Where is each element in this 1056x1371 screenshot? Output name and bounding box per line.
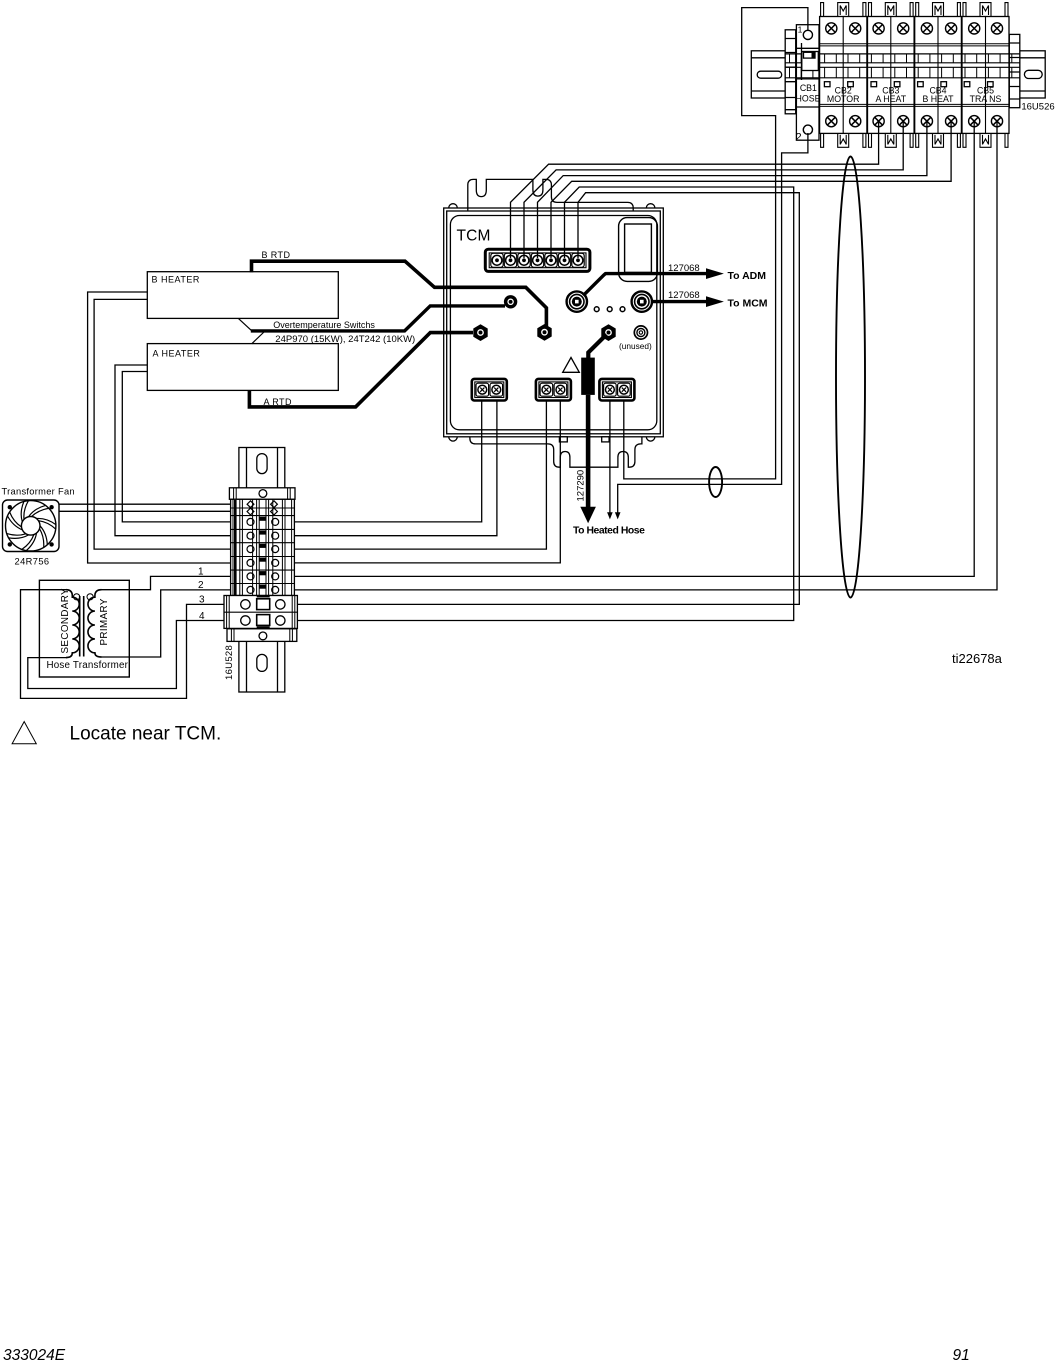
wire CB1 bottom terminal to heated hose lead (618, 133, 808, 513)
polarity dot secondary (74, 594, 80, 600)
svg-text:ti22678a: ti22678a (952, 651, 1003, 666)
svg-text:HOSE: HOSE (796, 94, 821, 104)
wire transformer fan lead 1 (59, 503, 231, 505)
wire A heater inner lead to terminal row C1 (122, 372, 231, 522)
svg-text:127290: 127290 (576, 470, 587, 502)
wire 4 terminal row B2 to transformer secondary bottom (28, 621, 231, 689)
terminal strip top end clamp (229, 488, 295, 500)
arrow TCM to ADM (583, 274, 706, 296)
terminal strip main body (231, 499, 295, 595)
svg-text:16U526: 16U526 (1021, 102, 1054, 113)
warning triangle on TCM (563, 358, 580, 373)
svg-text:4: 4 (199, 611, 205, 622)
wire B heater outer lead to terminal row C4 (88, 292, 231, 563)
cable marker (small ellipse, heated hose pair) (709, 467, 722, 497)
transformer primary winding (88, 590, 102, 657)
svg-text:127068: 127068 (668, 263, 700, 274)
svg-text:3: 3 (199, 595, 205, 606)
svg-text:Hose Transformer: Hose Transformer (47, 660, 129, 671)
breaker bottom clips and M tabs (821, 133, 1008, 147)
leader line overtemp to B heater (239, 319, 253, 332)
svg-text:B HEAT: B HEAT (922, 94, 954, 104)
B HEATER box (147, 272, 338, 319)
wire TCM pin5 to CB4 right pole (551, 121, 951, 258)
svg-text:MOTOR: MOTOR (827, 94, 860, 104)
wire TCM right block pin1 to heated hose lead (609, 400, 611, 513)
terminal strip large section (rows B1,B2) (224, 596, 297, 629)
circuit breaker CB1 HOSE body (796, 25, 819, 141)
hex stud A RTD input (473, 324, 487, 341)
CB1 internals (796, 43, 819, 107)
breaker body seams (820, 44, 1009, 107)
wire TCM pin3 to CB3 right pole (524, 121, 903, 258)
arrowhead heated hose lead (CB1 side) (615, 512, 621, 519)
TCM unused connector (634, 326, 647, 339)
svg-text:127068: 127068 (668, 290, 700, 301)
hose transformer box (39, 580, 129, 677)
thick lead hose hex to fuse (588, 335, 606, 359)
svg-text:CB1: CB1 (800, 83, 817, 93)
svg-text:(unused): (unused) (619, 341, 652, 351)
svg-text:2: 2 (198, 580, 204, 591)
svg-text:B RTD: B RTD (262, 250, 291, 260)
wire terminal row C5 to CB5 left pole (transformer primary feed) (295, 121, 974, 576)
terminal strip on rail (224, 488, 297, 642)
A HEATER box (147, 344, 338, 391)
TCM 7-pin connector J1 (485, 249, 590, 271)
wire TCM left block pin1 to terminal row C1 (295, 400, 482, 522)
transformer core (80, 596, 84, 657)
TCM left terminal block (472, 379, 507, 401)
circuit breaker CB5 TRANS body (962, 17, 1009, 134)
TCM top mounting bracket (468, 179, 633, 211)
arrow TCM to MCM (651, 300, 707, 303)
breaker terminal screws (803, 23, 1002, 135)
TCM round connector to MCM (127068) (632, 291, 652, 311)
wire TCM left block pin2 to terminal row C2 (295, 400, 497, 536)
inline fuse block (black) (581, 358, 595, 395)
polarity dot primary (87, 594, 93, 600)
svg-text:24R756: 24R756 (15, 557, 50, 567)
TCM round connector to ADM (127068) (567, 291, 587, 311)
svg-text:Overtemperature Switchs: Overtemperature Switchs (273, 320, 375, 330)
TCM inner panel (450, 216, 656, 430)
svg-text:TCM: TCM (457, 228, 491, 245)
svg-text:TRA NS: TRA NS (970, 94, 1002, 104)
wire 2 terminal row C6 to transformer primary bottom (101, 590, 232, 657)
wire CB1 top terminal to TCM hose output block (624, 8, 808, 479)
wire terminal row C6 to CB5 right pole (transformer primary feed) (295, 121, 997, 590)
wire TCM pin4 to CB4 left pole (538, 121, 927, 258)
svg-text:To Heated Hose: To Heated Hose (573, 526, 645, 537)
circuit breaker CB3 A HEAT body (868, 17, 915, 134)
cable bundle marker (tall ellipse) (836, 157, 865, 598)
hex stud hose output (601, 324, 615, 341)
DIN rail mounting bands across breakers (785, 54, 1020, 78)
wire 1 terminal row C5 to transformer primary top (101, 576, 232, 589)
wire transformer fan lead 2 (59, 510, 231, 512)
thick wire overtemperature switches to TCM (251, 306, 505, 331)
wire TCM center block pin2 to terminal row C4 (295, 400, 560, 563)
DIN rail right end clamp (1009, 34, 1020, 107)
terminal screw contacts rows C1-C6 (247, 518, 254, 525)
TCM right terminal block (599, 379, 634, 401)
TCM corner ears (449, 204, 655, 441)
TCM indicator dots (594, 307, 599, 312)
wire 3 terminal row B1 to transformer secondary top (21, 590, 232, 699)
thick wire A RTD to TCM (249, 333, 473, 407)
breaker indicator windows (824, 82, 993, 87)
TCM center terminal block (536, 379, 571, 401)
svg-text:A RTD: A RTD (264, 397, 292, 407)
terminal strip bottom end clamp (227, 629, 297, 642)
wire TCM center block pin1 to terminal row C3 (295, 400, 546, 549)
circuit breaker CB2 MOTOR body (820, 17, 867, 134)
leader line overtemp to A heater (252, 332, 265, 344)
thick wire B RTD to TCM (252, 261, 547, 328)
DIN rail 16U526 (right visible portion) (1020, 51, 1045, 98)
svg-text:24P970 (15KW), 24T242 (10KW: 24P970 (15KW), 24T242 (10KW) (275, 334, 415, 345)
thick wire 127290 to heated hose with arrowhead (586, 395, 591, 508)
breaker top clips and M tabs (821, 3, 1008, 17)
TCM bottom bracket feet (559, 437, 567, 442)
svg-text:1: 1 (198, 567, 204, 578)
stud overtemperature input (504, 295, 517, 308)
transformer fan 24R756 (3, 500, 60, 552)
svg-text:2: 2 (795, 132, 801, 144)
arrowhead heated hose lead (block side) (607, 512, 613, 519)
svg-text:16U528: 16U528 (224, 645, 235, 680)
DIN rail 16U528 (vertical) (239, 448, 285, 693)
svg-text:Locate near TCM.: Locate near TCM. (70, 723, 222, 744)
wire TCM pin2 to CB3 left pole (511, 121, 879, 258)
wire TCM pin6 to terminal row B2 (hose power) (295, 187, 794, 621)
DIN rail left end clamp (785, 30, 796, 114)
TCM module outer housing (444, 208, 664, 437)
hex stud B RTD input (537, 324, 551, 341)
breaker pole dividers (843, 17, 985, 134)
svg-text:333024E: 333024E (3, 1347, 66, 1364)
wire B heater inner lead to terminal row C3 (94, 299, 231, 549)
svg-text:B HEATER: B HEATER (152, 274, 200, 284)
terminal strip center latch blocks (259, 517, 266, 521)
terminal diamond contacts (fan rows) (247, 501, 254, 508)
wire A heater outer lead to terminal row C2 (115, 365, 231, 536)
svg-text:To MCM: To MCM (728, 297, 768, 309)
wire TCM pin7 to terminal row B1 (hose power) (295, 193, 799, 605)
TCM display window (619, 218, 658, 282)
svg-text:A HEATER: A HEATER (153, 348, 201, 358)
svg-text:1: 1 (798, 25, 803, 35)
TCM bottom mounting bracket (470, 437, 642, 467)
svg-text:A HEAT: A HEAT (875, 94, 906, 104)
warning triangle note (12, 722, 36, 744)
svg-text:PRIMARY: PRIMARY (99, 598, 110, 645)
svg-text:91: 91 (953, 1347, 970, 1364)
circuit breaker CB4 B HEAT body (915, 17, 962, 134)
svg-text:Transformer Fan: Transformer Fan (2, 487, 75, 497)
svg-text:To ADM: To ADM (728, 270, 767, 282)
DIN rail 16U526 (left visible portion) (751, 51, 785, 98)
svg-text:SECONDARY: SECONDARY (60, 588, 71, 654)
transformer secondary winding (66, 590, 79, 658)
